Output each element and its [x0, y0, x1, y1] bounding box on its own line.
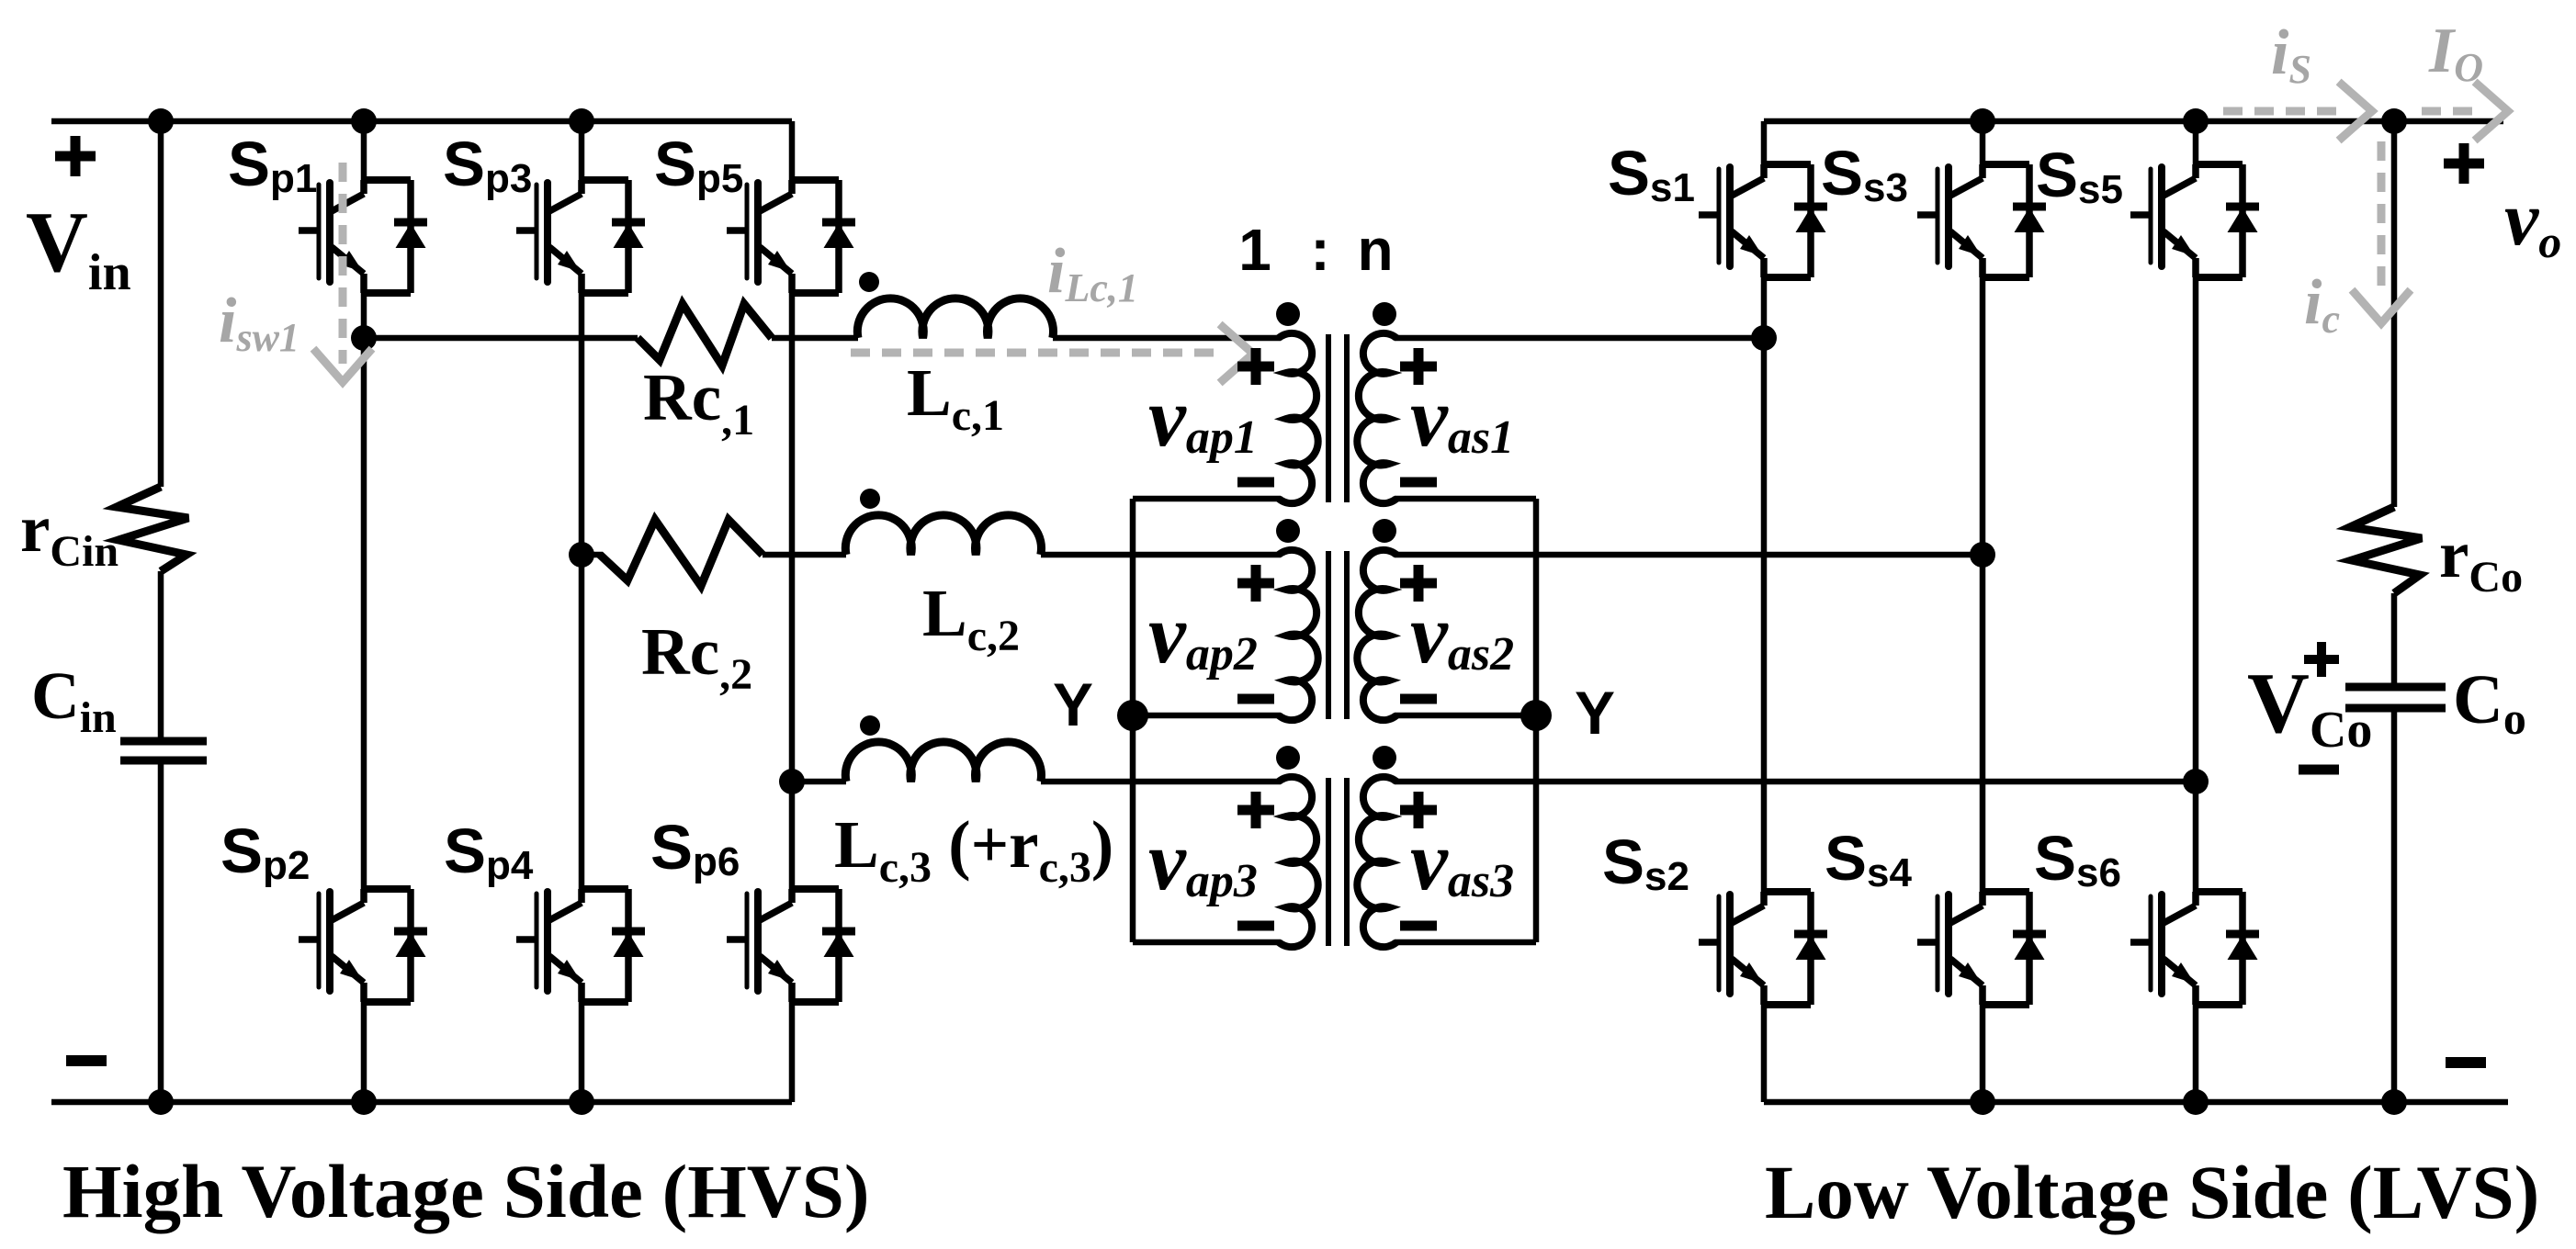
polarity dot T2 secondary [1373, 519, 1396, 543]
node: phase A junction [351, 325, 377, 351]
node: top rail junction leg B [569, 108, 594, 134]
wire: Cin to bottom rail [158, 760, 164, 1102]
wire: Ss5 collector from LVS top rail [2193, 121, 2199, 167]
label - (VCo) [2299, 765, 2339, 775]
label + vap3 [1237, 805, 1274, 816]
transistor Ss2 (IGBT with antiparallel diode) [1699, 892, 1827, 1005]
transformer T2 primary winding vap2 [1279, 550, 1318, 720]
transformer T2 secondary winding vas2 [1357, 550, 1396, 720]
svg-text:1:n: 1:n [1238, 217, 1393, 283]
node Y (secondary star point) [1520, 700, 1552, 731]
wire: T1 primary bottom to left bus [1133, 496, 1281, 502]
label - (Vin negative terminal) [66, 1055, 107, 1066]
transformer T1 primary winding vap1 [1279, 333, 1318, 503]
polarity dot T3 primary [1276, 746, 1300, 770]
transformer T1 core [1326, 334, 1331, 502]
current arrow iS (dashed gray, rightward) [2223, 107, 2339, 116]
node: phase C junction [779, 769, 805, 794]
current arrow isw1 (dashed gray, downward) [339, 163, 347, 364]
wire: LVS top rail [1764, 118, 2503, 125]
wire: Ss3 collector from LVS top rail [1980, 121, 1986, 167]
transistor Sp3 (IGBT with antiparallel diode) [516, 180, 645, 293]
wire: left neutral bus (primary Y) [1130, 499, 1136, 942]
wire: T1 secondary to Ss1 leg [1395, 335, 1764, 342]
wire: Sp2 emitter to bottom rail [361, 1002, 367, 1102]
wire: phase B to resistor Rc,2 [582, 552, 603, 558]
wire: leg A phase node down to bottom switch [361, 338, 367, 892]
resistor Rc,1 [638, 304, 772, 366]
label + (Vin positive terminal) [55, 152, 96, 162]
wire: leg C collector from top rail [789, 121, 796, 183]
wire: Lc,1 to transformer T1 primary [1053, 335, 1281, 342]
wire: HVS bottom rail [51, 1099, 792, 1106]
resistor rCo [2350, 507, 2422, 593]
transformer T2 core [1326, 551, 1331, 719]
transistor Sp1 (IGBT with antiparallel diode) [299, 180, 427, 293]
wire: T2 primary bottom to Y node [1133, 713, 1281, 719]
capacitor Co [2345, 683, 2446, 692]
node: LVS phase 2 junction [1970, 542, 1995, 568]
svg-text:High Voltage Side (HVS): High Voltage Side (HVS) [62, 1149, 870, 1233]
node: LVS phase 1 junction [1751, 325, 1777, 351]
transistor Sp6 (IGBT with antiparallel diode) [727, 889, 855, 1002]
svg-text:Y: Y [1053, 670, 1093, 738]
wire: T2 secondary bottom to Y node [1395, 713, 1536, 719]
wire: Sp5 emitter to phase node [789, 293, 796, 782]
transistor Ss4 (IGBT with antiparallel diode) [1917, 892, 2046, 1005]
current arrow IO (dashed gray, rightward) [2422, 107, 2480, 116]
node: LVS bottom rail junction Ss4 [1970, 1089, 1995, 1115]
wire: phase C to Lc,3 [792, 779, 846, 785]
transistor Ss1 (IGBT with antiparallel diode) [1699, 164, 1827, 277]
wire: Rc,2 to Lc,2 [763, 552, 846, 558]
inductor Lc,3 [845, 742, 1041, 782]
wire: rCin to Cin [158, 571, 164, 741]
current arrow iLc,1 (dashed gray, rightward) [851, 349, 1222, 357]
transistor Ss3 (IGBT with antiparallel diode) [1917, 164, 2046, 277]
wire: T3 primary bottom to left bus [1133, 940, 1281, 946]
transistor Ss6 (IGBT with antiparallel diode) [2130, 892, 2259, 1005]
node: LVS phase 3 junction [2183, 769, 2209, 794]
wire: HVS top rail [51, 118, 792, 125]
wire: leg B phase node down to bottom switch [579, 555, 585, 892]
label - vas2 [1400, 694, 1437, 704]
resistor rCin [117, 487, 188, 571]
wire: right neutral bus (secondary Y) [1533, 499, 1540, 942]
transistor Sp2 (IGBT with antiparallel diode) [299, 889, 427, 1002]
wire: Sp4 emitter to bottom rail [579, 1002, 585, 1102]
node: LVS top rail output junction [2381, 108, 2407, 134]
label - vap3 [1237, 921, 1274, 931]
wire: Ss5 emitter to phase node [2193, 277, 2199, 782]
node: LVS top rail junction Ss3 [1970, 108, 1995, 134]
transistor Sp5 (IGBT with antiparallel diode) [727, 180, 855, 293]
node: bottom rail junction Cin branch [148, 1089, 174, 1115]
wire: Sp3 emitter to phase node [579, 293, 585, 555]
label + vap1 [1237, 362, 1274, 372]
label + vas2 [1400, 579, 1437, 589]
capacitor Cin [120, 737, 207, 746]
wire: Lc,2 to transformer T2 primary [1041, 552, 1281, 558]
wire: Cin branch upper segment [158, 121, 164, 487]
wire: T2 secondary to Ss3 leg [1395, 552, 1983, 558]
wire: Ss6 emitter to LVS bottom rail [2193, 1005, 2199, 1102]
polarity dot Lc,2 [860, 489, 880, 509]
label - (vo negative terminal) [2446, 1057, 2486, 1068]
inductor Lc,1 [857, 298, 1053, 338]
node: LVS bottom rail junction Ss6 [2183, 1089, 2209, 1115]
current arrow ic (dashed gray, downward) [2378, 141, 2386, 296]
wire: rCo to Co [2391, 593, 2398, 687]
polarity dot T1 primary [1276, 302, 1300, 326]
node Y (primary star point) [1117, 700, 1148, 731]
wire: Ss4 collector from phase node [1980, 555, 1986, 895]
polarity dot Lc,1 [859, 272, 879, 292]
wire: Ss2 emitter to LVS bottom rail [1761, 1005, 1768, 1102]
polarity dot T2 primary [1276, 519, 1300, 543]
wire: leg A collector from top rail [361, 121, 367, 183]
label - vas3 [1400, 921, 1437, 931]
node: LVS bottom rail output junction [2381, 1089, 2407, 1115]
wire: Co to bottom rail [2391, 708, 2398, 1102]
svg-text:Y: Y [1575, 679, 1615, 747]
transformer T3 core [1326, 778, 1331, 946]
wire: Sp1 emitter to phase node [361, 293, 367, 338]
wire: T1 secondary bottom to right bus [1395, 496, 1536, 502]
label - vas1 [1400, 478, 1437, 488]
transformer T1 secondary winding vas1 [1357, 333, 1396, 503]
wire: leg B collector from top rail [579, 121, 585, 183]
wire: Sp6 emitter to bottom rail [789, 1002, 796, 1102]
wire: Ss6 collector from phase node [2193, 782, 2199, 895]
node: bottom rail junction leg B [569, 1089, 594, 1115]
node: LVS top rail junction Ss5 [2183, 108, 2209, 134]
svg-text:Low Voltage Side (LVS): Low Voltage Side (LVS) [1765, 1150, 2539, 1234]
wire: Rc,1 to Lc,1 [772, 335, 858, 342]
wire: Ss4 emitter to LVS bottom rail [1980, 1005, 1986, 1102]
wire: Ss1 emitter to phase node [1761, 277, 1768, 338]
transformer T3 primary winding vap3 [1279, 777, 1318, 947]
label + (vo positive terminal) [2444, 159, 2484, 169]
polarity dot Lc,3 [860, 715, 880, 736]
wire: LVS bottom rail [1764, 1099, 2508, 1106]
wire: T3 secondary bottom to right bus [1395, 940, 1536, 946]
wire: T3 secondary to Ss5 leg [1395, 779, 2196, 785]
wire: phase A to resistor Rc,1 [364, 335, 638, 342]
polarity dot T1 secondary [1373, 302, 1396, 326]
label - vap1 [1237, 478, 1274, 488]
transistor Sp4 (IGBT with antiparallel diode) [516, 889, 645, 1002]
wire: leg C phase node down to bottom switch [789, 782, 796, 892]
label + vap2 [1237, 579, 1274, 589]
label + vas1 [1400, 362, 1437, 372]
wire: Lc,3 to transformer T3 primary [1041, 779, 1281, 785]
label - vap2 [1237, 694, 1274, 704]
resistor Rc,2 [600, 520, 763, 586]
transformer T3 secondary winding vas3 [1357, 777, 1396, 947]
node: top rail junction leg A [351, 108, 377, 134]
node: bottom rail junction leg A [351, 1089, 377, 1115]
wire: Ss3 emitter to phase node [1980, 277, 1986, 555]
node: top rail junction to Cin branch [148, 108, 174, 134]
wire: output node down to rCo [2391, 121, 2398, 507]
label + vas3 [1400, 805, 1437, 816]
transistor Ss5 (IGBT with antiparallel diode) [2130, 164, 2259, 277]
polarity dot T3 secondary [1373, 746, 1396, 770]
wire: Ss2 collector from phase node [1761, 338, 1768, 895]
inductor Lc,2 [845, 515, 1041, 555]
wire: Ss1 collector from LVS top rail [1761, 121, 1768, 167]
label + (VCo) [2304, 655, 2339, 664]
node: phase B junction [569, 542, 594, 568]
